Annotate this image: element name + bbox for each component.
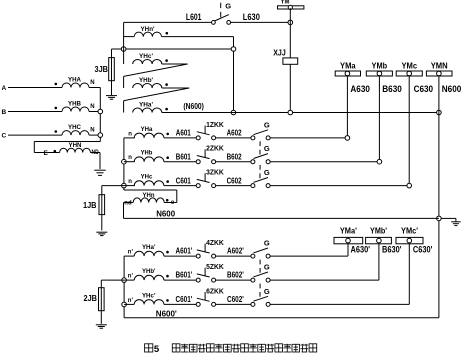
svg-text:YMa: YMa (340, 60, 356, 70)
svg-text:n': n' (128, 250, 134, 256)
svg-text:YHB: YHB (68, 101, 81, 108)
svg-text:C601: C601 (176, 176, 191, 185)
svg-text:N: N (90, 104, 94, 110)
svg-text:B: B (2, 109, 7, 116)
svg-text:1JB: 1JB (83, 201, 97, 210)
svg-text:C602': C602' (227, 295, 244, 304)
svg-text:YHc: YHc (141, 174, 153, 181)
svg-text:n: n (128, 155, 132, 161)
svg-text:G: G (264, 144, 270, 153)
svg-text:YHn: YHn (143, 192, 155, 199)
svg-text:3JB: 3JB (95, 65, 109, 74)
svg-text:G: G (264, 168, 270, 177)
svg-text:YHa: YHa (141, 126, 153, 133)
svg-text:YHA: YHA (68, 77, 81, 84)
svg-text:B630': B630' (382, 244, 402, 255)
svg-text:C602: C602 (227, 176, 242, 185)
svg-text:n': n' (128, 298, 134, 304)
svg-text:N: N (90, 128, 94, 134)
svg-text:A601': A601' (176, 247, 193, 256)
svg-text:N: N (90, 80, 94, 86)
svg-text:B601: B601 (176, 152, 191, 161)
svg-text:G: G (225, 2, 231, 11)
svg-text:G: G (264, 263, 270, 272)
svg-text:G: G (264, 239, 270, 248)
svg-text:YHc': YHc' (142, 292, 156, 299)
svg-text:n: n (128, 131, 132, 137)
svg-text:N600: N600 (442, 84, 462, 95)
svg-text:YMb: YMb (372, 60, 388, 70)
svg-text:1ZKK: 1ZKK (206, 122, 224, 129)
svg-text:C601': C601' (176, 295, 193, 304)
svg-text:n: n (128, 179, 132, 185)
svg-text:nd: nd (124, 201, 132, 207)
svg-text:n': n' (128, 274, 134, 280)
svg-text:YMa': YMa' (340, 226, 357, 236)
svg-text:4ZKK: 4ZKK (206, 240, 224, 247)
svg-text:C630': C630' (413, 244, 433, 255)
svg-text:(N600): (N600) (183, 102, 204, 111)
svg-text:XJJ: XJJ (273, 48, 286, 57)
svg-text:YM: YM (281, 0, 290, 5)
svg-text:YHC: YHC (68, 124, 81, 131)
svg-text:A601: A601 (176, 129, 191, 138)
svg-text:B602: B602 (227, 152, 242, 161)
svg-text:C: C (2, 133, 7, 140)
svg-text:B601': B601' (176, 271, 193, 280)
svg-text:YHN: YHN (69, 142, 82, 149)
svg-text:2ZKK: 2ZKK (206, 146, 224, 153)
svg-text:5: 5 (154, 344, 160, 355)
svg-text:E: E (44, 150, 49, 157)
svg-text:A630': A630' (351, 244, 371, 255)
svg-text:A602': A602' (227, 247, 244, 256)
svg-text:A630: A630 (350, 84, 370, 95)
svg-text:YMc: YMc (401, 60, 417, 70)
svg-text:YHa': YHa' (139, 102, 153, 109)
svg-text:B602': B602' (227, 271, 244, 280)
svg-text:A602: A602 (227, 129, 242, 138)
svg-text:G: G (264, 120, 270, 129)
svg-text:YHb': YHb' (139, 77, 153, 84)
svg-text:L601: L601 (186, 12, 202, 22)
svg-text:6ZKK: 6ZKK (206, 288, 224, 295)
svg-text:N600': N600' (156, 309, 177, 318)
svg-text:C630: C630 (414, 84, 434, 95)
svg-text:YHn': YHn' (141, 26, 155, 33)
svg-text:YHa': YHa' (142, 244, 156, 251)
svg-text:YHb: YHb (141, 150, 153, 157)
svg-text:G: G (264, 287, 270, 296)
svg-text:YHc': YHc' (139, 53, 153, 60)
svg-text:YMN: YMN (431, 60, 448, 70)
svg-text:YHb': YHb' (142, 268, 156, 275)
svg-text:YMb': YMb' (370, 226, 387, 236)
svg-text:2JB: 2JB (84, 294, 98, 303)
svg-text:L630: L630 (243, 12, 260, 22)
svg-text:A: A (2, 85, 7, 92)
svg-text:B630: B630 (382, 84, 402, 95)
svg-text:5ZKK: 5ZKK (206, 264, 224, 271)
svg-text:YMc': YMc' (401, 226, 418, 236)
svg-text:N600: N600 (156, 210, 175, 219)
svg-text:3ZKK: 3ZKK (206, 170, 224, 177)
